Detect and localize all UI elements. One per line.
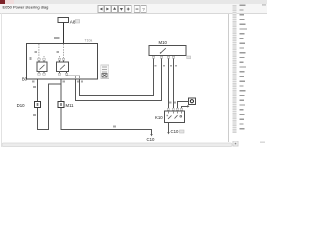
svg-text:C10: C10 [147,137,155,142]
svg-text:C10: C10 [171,129,179,134]
svg-text:K10: K10 [155,115,163,120]
svg-text:M11: M11 [66,103,75,108]
svg-text:B0: B0 [22,77,28,82]
svg-text:T10a: T10a [85,39,93,43]
svg-text:D10: D10 [17,103,25,108]
svg-text:?: ? [142,7,145,12]
svg-text:E050 Power steering diag: E050 Power steering diag [3,5,49,10]
svg-text:M10: M10 [159,40,168,45]
